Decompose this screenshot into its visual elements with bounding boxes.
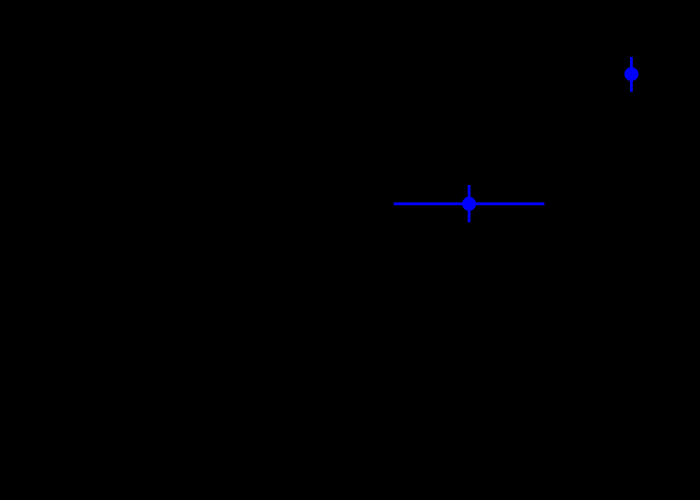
error bar (horizontal) of data point 2: [394, 202, 545, 205]
error bar (vertical) of data point 1: [630, 57, 633, 92]
data point 2 marker: [462, 197, 476, 211]
error bar (vertical) of data point 2: [468, 185, 471, 222]
data point 1 marker: [624, 67, 638, 81]
